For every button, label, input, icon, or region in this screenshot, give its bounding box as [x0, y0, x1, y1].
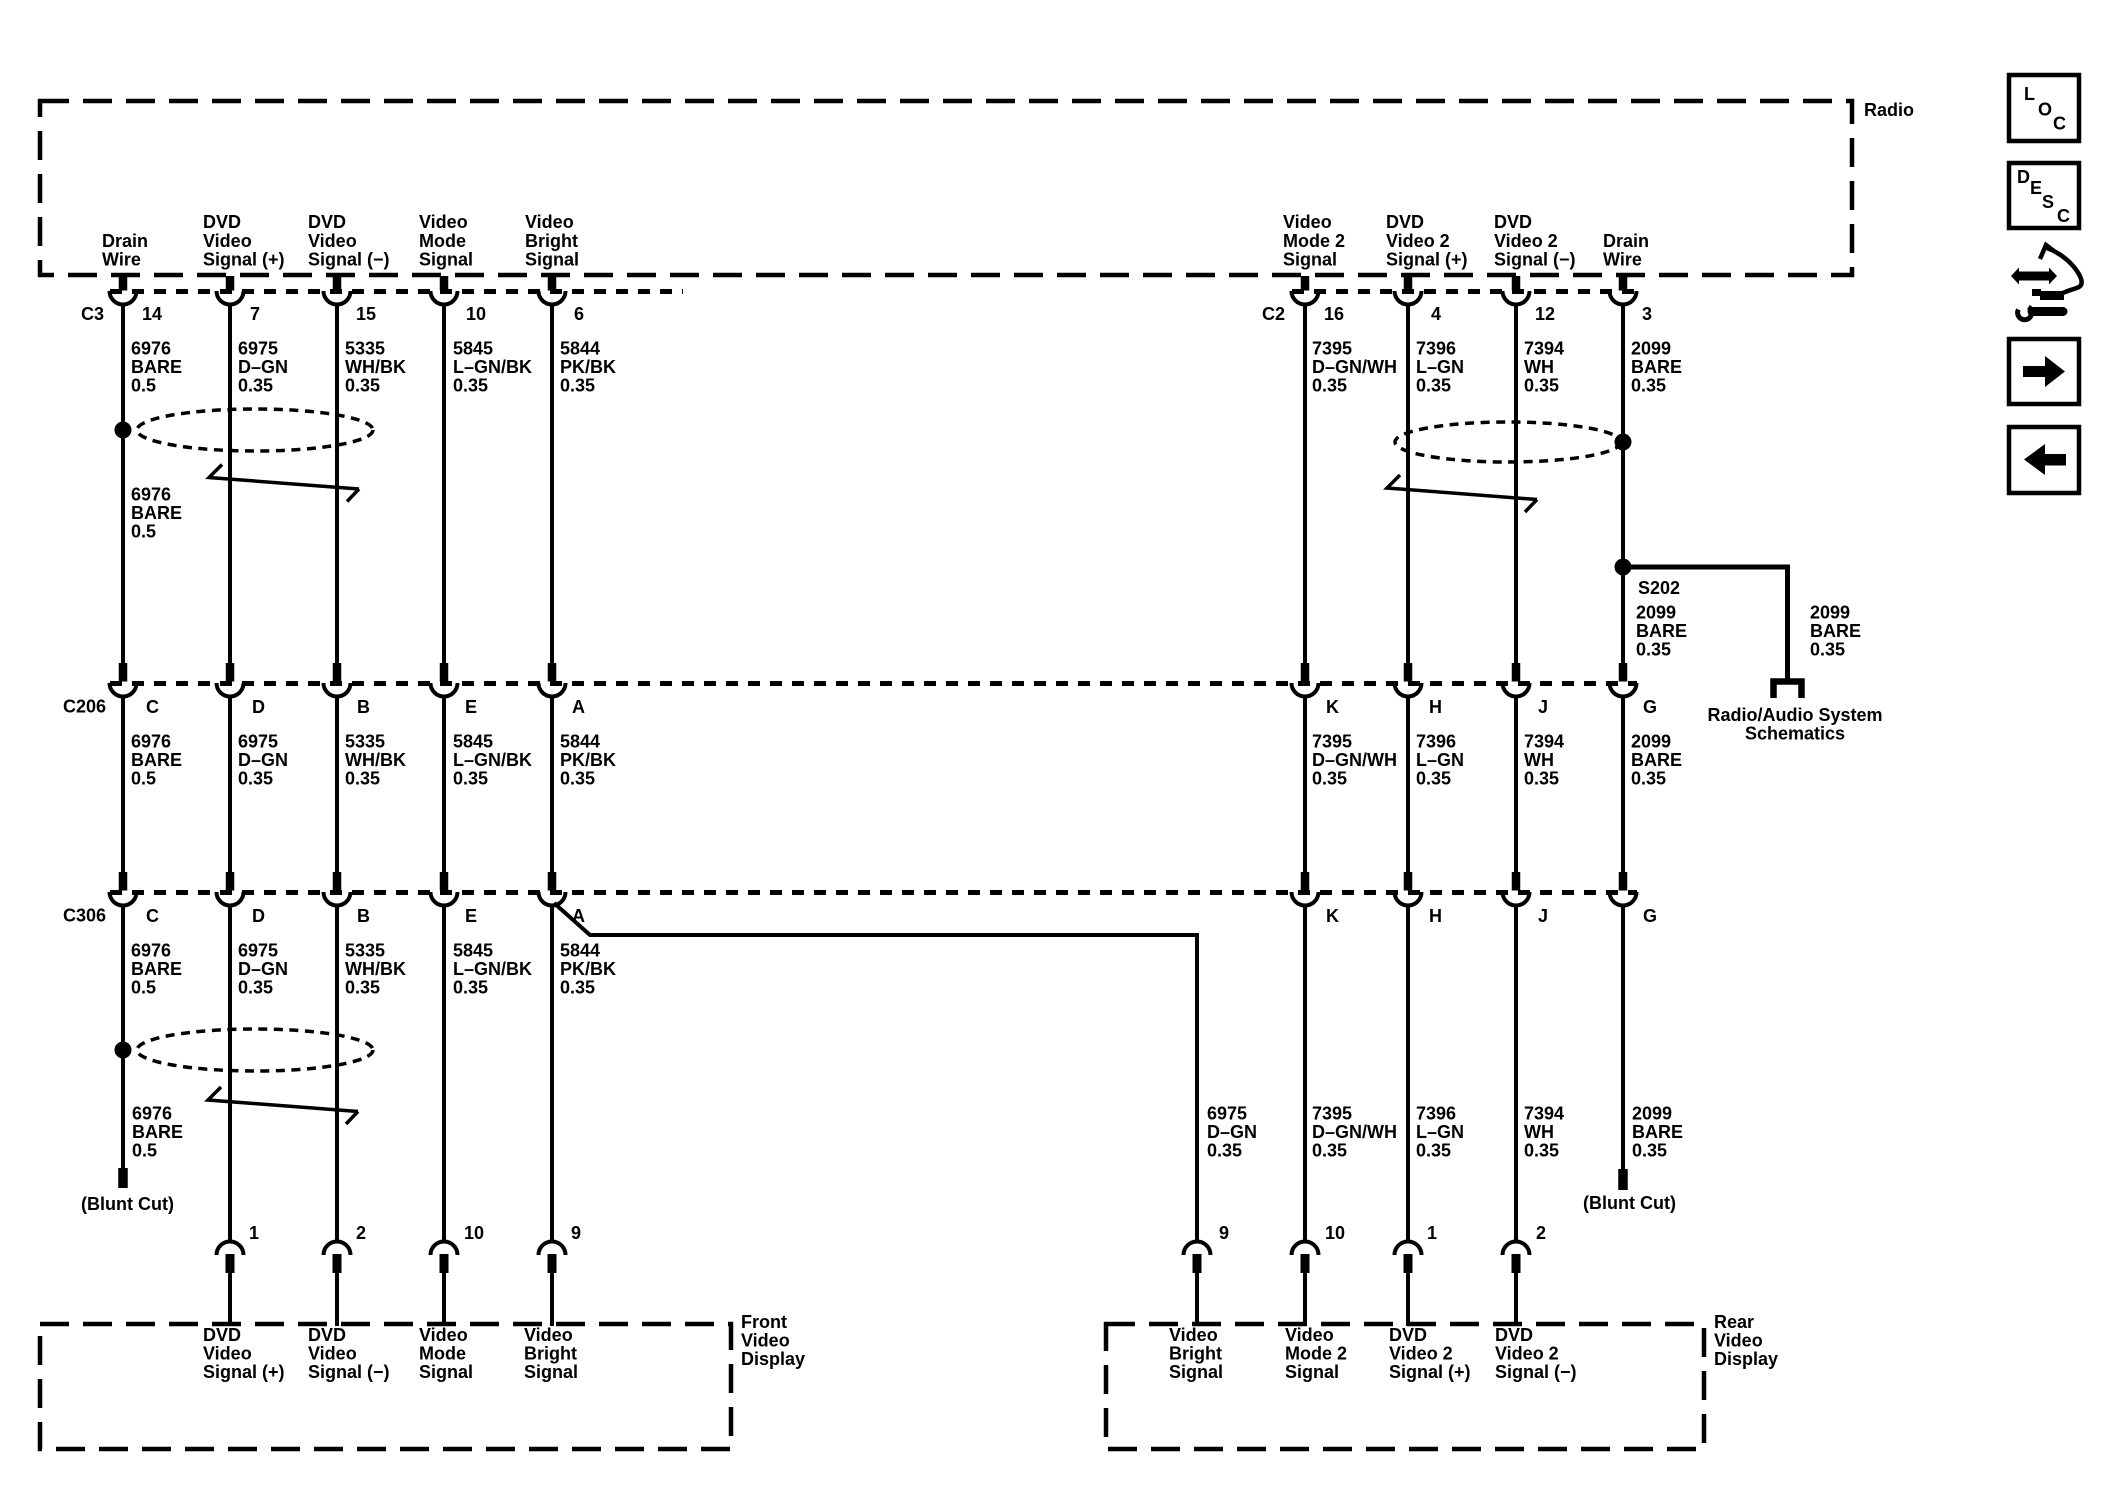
svg-text:C306: C306 [63, 906, 106, 926]
svg-text:A: A [572, 697, 585, 717]
svg-text:0.35: 0.35 [1810, 640, 1845, 660]
svg-text:B: B [357, 697, 370, 717]
svg-text:Signal: Signal [524, 1362, 578, 1382]
svg-text:Drain: Drain [102, 231, 148, 251]
svg-text:Schematics: Schematics [1745, 724, 1845, 744]
svg-text:Video: Video [419, 212, 468, 232]
svg-text:Wire: Wire [102, 249, 141, 269]
svg-text:Bright: Bright [525, 231, 578, 251]
svg-text:DVD: DVD [203, 1325, 241, 1345]
svg-text:E: E [465, 906, 477, 926]
svg-text:7395: 7395 [1312, 731, 1352, 751]
svg-text:J: J [1538, 697, 1548, 717]
svg-text:O: O [2038, 100, 2052, 120]
svg-text:7396: 7396 [1416, 1103, 1456, 1123]
svg-text:0.35: 0.35 [1632, 1141, 1667, 1161]
svg-text:D–GN/WH: D–GN/WH [1312, 357, 1397, 377]
svg-text:7395: 7395 [1312, 1103, 1352, 1123]
svg-text:Video: Video [203, 231, 252, 251]
svg-text:5845: 5845 [453, 940, 493, 960]
svg-text:PK/BK: PK/BK [560, 959, 616, 979]
svg-text:Signal (+): Signal (+) [1389, 1362, 1471, 1382]
svg-text:L–GN/BK: L–GN/BK [453, 357, 532, 377]
svg-text:0.35: 0.35 [345, 978, 380, 998]
svg-text:5335: 5335 [345, 338, 385, 358]
svg-text:WH: WH [1524, 357, 1554, 377]
svg-text:BARE: BARE [1636, 621, 1687, 641]
svg-text:Display: Display [741, 1349, 805, 1369]
svg-text:S: S [2042, 192, 2054, 212]
svg-text:Video 2: Video 2 [1495, 1344, 1559, 1364]
svg-text:Rear: Rear [1714, 1312, 1754, 1332]
svg-text:7396: 7396 [1416, 731, 1456, 751]
svg-text:Video: Video [308, 231, 357, 251]
svg-text:Video: Video [524, 1325, 573, 1345]
svg-text:E: E [2030, 178, 2042, 198]
svg-text:0.5: 0.5 [131, 376, 156, 396]
svg-text:Signal: Signal [1283, 249, 1337, 269]
svg-text:0.35: 0.35 [1312, 1141, 1347, 1161]
svg-text:0.35: 0.35 [1312, 376, 1347, 396]
svg-text:3: 3 [1642, 304, 1652, 324]
svg-text:0.35: 0.35 [345, 376, 380, 396]
svg-text:7394: 7394 [1524, 1103, 1564, 1123]
svg-text:WH: WH [1524, 750, 1554, 770]
svg-text:0.35: 0.35 [1416, 769, 1451, 789]
svg-text:D–GN: D–GN [238, 357, 288, 377]
svg-text:0.35: 0.35 [345, 769, 380, 789]
svg-text:0.35: 0.35 [238, 978, 273, 998]
svg-text:DVD: DVD [1386, 212, 1424, 232]
svg-text:Signal (+): Signal (+) [203, 249, 285, 269]
svg-text:C206: C206 [63, 697, 106, 717]
svg-text:Video: Video [525, 212, 574, 232]
svg-text:0.5: 0.5 [131, 769, 156, 789]
svg-text:0.35: 0.35 [1524, 376, 1559, 396]
svg-text:0.35: 0.35 [1416, 376, 1451, 396]
svg-text:D–GN: D–GN [1207, 1122, 1257, 1142]
svg-text:Video: Video [1169, 1325, 1218, 1345]
svg-text:Display: Display [1714, 1349, 1778, 1369]
svg-text:G: G [1643, 906, 1657, 926]
svg-text:2099: 2099 [1632, 1103, 1672, 1123]
svg-text:2099: 2099 [1631, 338, 1671, 358]
svg-text:Signal (−): Signal (−) [1495, 1362, 1577, 1382]
svg-text:0.35: 0.35 [1631, 769, 1666, 789]
svg-text:K: K [1326, 906, 1339, 926]
svg-text:H: H [1429, 697, 1442, 717]
svg-text:7396: 7396 [1416, 338, 1456, 358]
svg-text:7395: 7395 [1312, 338, 1352, 358]
svg-text:BARE: BARE [131, 750, 182, 770]
svg-text:Video: Video [308, 1344, 357, 1364]
svg-text:PK/BK: PK/BK [560, 357, 616, 377]
svg-text:L–GN: L–GN [1416, 750, 1464, 770]
svg-text:Wire: Wire [1603, 249, 1642, 269]
svg-text:(Blunt Cut): (Blunt Cut) [1583, 1193, 1676, 1213]
svg-text:5845: 5845 [453, 731, 493, 751]
svg-text:C2: C2 [1262, 304, 1285, 324]
svg-text:0.35: 0.35 [238, 376, 273, 396]
svg-text:Video 2: Video 2 [1494, 231, 1558, 251]
svg-text:WH/BK: WH/BK [345, 750, 406, 770]
svg-text:C: C [2053, 114, 2066, 134]
svg-text:Signal: Signal [419, 1362, 473, 1382]
svg-text:0.5: 0.5 [132, 1141, 157, 1161]
svg-text:C: C [146, 906, 159, 926]
svg-text:0.35: 0.35 [238, 769, 273, 789]
svg-text:WH/BK: WH/BK [345, 959, 406, 979]
svg-text:1: 1 [1427, 1223, 1437, 1243]
svg-text:5845: 5845 [453, 338, 493, 358]
svg-text:0.35: 0.35 [1524, 1141, 1559, 1161]
svg-text:16: 16 [1324, 304, 1344, 324]
svg-text:BARE: BARE [132, 1122, 183, 1142]
svg-text:6976: 6976 [131, 338, 171, 358]
svg-text:0.5: 0.5 [131, 978, 156, 998]
svg-text:5844: 5844 [560, 338, 600, 358]
svg-text:6975: 6975 [1207, 1103, 1247, 1123]
svg-text:12: 12 [1535, 304, 1555, 324]
svg-text:5844: 5844 [560, 731, 600, 751]
svg-text:Signal: Signal [525, 249, 579, 269]
svg-text:L–GN: L–GN [1416, 1122, 1464, 1142]
svg-text:Signal: Signal [1169, 1362, 1223, 1382]
svg-text:L–GN/BK: L–GN/BK [453, 750, 532, 770]
svg-text:14: 14 [142, 304, 162, 324]
svg-text:BARE: BARE [131, 357, 182, 377]
svg-text:2: 2 [1536, 1223, 1546, 1243]
svg-text:DVD: DVD [203, 212, 241, 232]
svg-text:WH/BK: WH/BK [345, 357, 406, 377]
svg-text:C: C [2057, 206, 2070, 226]
svg-text:6975: 6975 [238, 731, 278, 751]
svg-text:6976: 6976 [131, 731, 171, 751]
svg-text:Video: Video [1714, 1331, 1763, 1351]
svg-text:10: 10 [466, 304, 486, 324]
svg-text:0.35: 0.35 [560, 978, 595, 998]
svg-text:Radio/Audio System: Radio/Audio System [1707, 705, 1882, 725]
svg-text:B: B [357, 906, 370, 926]
svg-text:D–GN: D–GN [238, 959, 288, 979]
svg-text:Video: Video [1285, 1325, 1334, 1345]
svg-text:C3: C3 [81, 304, 104, 324]
svg-text:Mode: Mode [419, 1344, 466, 1364]
svg-text:6: 6 [574, 304, 584, 324]
svg-text:Mode: Mode [419, 231, 466, 251]
svg-text:2: 2 [356, 1223, 366, 1243]
svg-text:Video: Video [741, 1331, 790, 1351]
svg-text:J: J [1538, 906, 1548, 926]
svg-text:7394: 7394 [1524, 338, 1564, 358]
svg-text:Signal (+): Signal (+) [203, 1362, 285, 1382]
svg-text:5844: 5844 [560, 940, 600, 960]
svg-text:0.35: 0.35 [1207, 1141, 1242, 1161]
svg-text:DVD: DVD [1389, 1325, 1427, 1345]
svg-text:Video: Video [419, 1325, 468, 1345]
svg-text:L: L [2024, 84, 2035, 104]
svg-text:2099: 2099 [1636, 602, 1676, 622]
svg-text:Bright: Bright [524, 1344, 577, 1364]
svg-text:BARE: BARE [1632, 1122, 1683, 1142]
svg-text:BARE: BARE [1631, 357, 1682, 377]
svg-text:0.35: 0.35 [453, 769, 488, 789]
svg-text:D: D [252, 906, 265, 926]
svg-text:Video: Video [203, 1344, 252, 1364]
svg-text:(Blunt Cut): (Blunt Cut) [81, 1194, 174, 1214]
svg-text:L–GN: L–GN [1416, 357, 1464, 377]
svg-text:6975: 6975 [238, 940, 278, 960]
svg-text:0.5: 0.5 [131, 522, 156, 542]
svg-text:K: K [1326, 697, 1339, 717]
svg-text:10: 10 [464, 1223, 484, 1243]
svg-text:D–GN/WH: D–GN/WH [1312, 750, 1397, 770]
svg-text:Video: Video [1283, 212, 1332, 232]
svg-text:Signal (−): Signal (−) [1494, 249, 1576, 269]
svg-text:BARE: BARE [1631, 750, 1682, 770]
svg-text:S202: S202 [1638, 578, 1680, 598]
svg-text:0.35: 0.35 [1631, 376, 1666, 396]
svg-text:Signal (−): Signal (−) [308, 1362, 390, 1382]
svg-text:6975: 6975 [238, 338, 278, 358]
svg-text:Video 2: Video 2 [1389, 1344, 1453, 1364]
svg-text:Bright: Bright [1169, 1344, 1222, 1364]
svg-text:5335: 5335 [345, 731, 385, 751]
svg-text:D: D [2017, 167, 2030, 187]
svg-text:2099: 2099 [1631, 731, 1671, 751]
svg-text:BARE: BARE [131, 959, 182, 979]
svg-text:6976: 6976 [131, 940, 171, 960]
svg-text:Mode 2: Mode 2 [1285, 1344, 1347, 1364]
svg-text:DVD: DVD [1495, 1325, 1533, 1345]
svg-text:BARE: BARE [1810, 621, 1861, 641]
svg-text:DVD: DVD [1494, 212, 1532, 232]
svg-text:0.35: 0.35 [1524, 769, 1559, 789]
svg-text:7: 7 [250, 304, 260, 324]
svg-text:10: 10 [1325, 1223, 1345, 1243]
svg-text:2099: 2099 [1810, 602, 1850, 622]
svg-text:Signal (−): Signal (−) [308, 249, 390, 269]
svg-text:G: G [1643, 697, 1657, 717]
svg-text:Mode 2: Mode 2 [1283, 231, 1345, 251]
svg-text:D–GN/WH: D–GN/WH [1312, 1122, 1397, 1142]
svg-text:Signal: Signal [1285, 1362, 1339, 1382]
svg-text:Signal (+): Signal (+) [1386, 249, 1468, 269]
svg-text:15: 15 [356, 304, 376, 324]
svg-text:DVD: DVD [308, 212, 346, 232]
svg-text:E: E [465, 697, 477, 717]
svg-text:0.35: 0.35 [560, 769, 595, 789]
svg-text:0.35: 0.35 [1636, 640, 1671, 660]
svg-text:0.35: 0.35 [560, 376, 595, 396]
svg-text:Signal: Signal [419, 249, 473, 269]
svg-text:0.35: 0.35 [1312, 769, 1347, 789]
svg-text:Drain: Drain [1603, 231, 1649, 251]
svg-text:Radio: Radio [1864, 100, 1914, 120]
svg-text:L–GN/BK: L–GN/BK [453, 959, 532, 979]
svg-text:WH: WH [1524, 1122, 1554, 1142]
svg-text:7394: 7394 [1524, 731, 1564, 751]
svg-text:4: 4 [1431, 304, 1441, 324]
svg-text:D–GN: D–GN [238, 750, 288, 770]
svg-text:9: 9 [1219, 1223, 1229, 1243]
svg-text:1: 1 [249, 1223, 259, 1243]
svg-text:Front: Front [741, 1312, 787, 1332]
svg-text:9: 9 [571, 1223, 581, 1243]
svg-text:D: D [252, 697, 265, 717]
svg-text:Video 2: Video 2 [1386, 231, 1450, 251]
svg-text:BARE: BARE [131, 503, 182, 523]
svg-text:DVD: DVD [308, 1325, 346, 1345]
svg-text:0.35: 0.35 [1416, 1141, 1451, 1161]
svg-text:5335: 5335 [345, 940, 385, 960]
svg-text:6976: 6976 [131, 484, 171, 504]
svg-text:H: H [1429, 906, 1442, 926]
svg-text:0.35: 0.35 [453, 376, 488, 396]
svg-text:PK/BK: PK/BK [560, 750, 616, 770]
svg-text:6976: 6976 [132, 1103, 172, 1123]
svg-text:0.35: 0.35 [453, 978, 488, 998]
svg-text:C: C [146, 697, 159, 717]
